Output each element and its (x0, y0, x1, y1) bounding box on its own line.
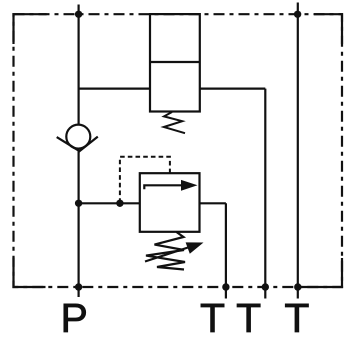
svg-text:T: T (236, 295, 261, 341)
node: P pilot tee junction (75, 200, 82, 207)
wire: P vertical line (77, 5, 79, 288)
check valve V1 (57, 125, 98, 152)
svg-text:T: T (284, 295, 309, 341)
wire: P stub below envelope (77, 287, 79, 297)
wire: branch P to upper valve (79, 87, 150, 89)
svg-text:T: T (200, 295, 225, 341)
wire: relief outlet drop to tank (first T) (225, 203, 227, 298)
node: first T junction (222, 283, 229, 290)
wire: relief valve outlet (200, 202, 226, 204)
pilot line (dashed) of U2 (120, 157, 170, 201)
node: pilot branch junction (116, 200, 123, 207)
node: P bottom junction (75, 283, 82, 290)
node: second T junction (262, 283, 269, 290)
valve body U1 (two-position cartridge element) (150, 14, 200, 111)
node: third T junction (294, 283, 301, 290)
relief valve U2 (140, 173, 200, 232)
svg-text:P: P (61, 295, 88, 341)
wire: right drop to tank (second T) (264, 89, 266, 299)
wire: right T vertical line (297, 3, 299, 299)
wire: pilot feed P to relief valve (79, 202, 140, 204)
enclosure boundary (dash-dot envelope) (14, 14, 343, 287)
node: P top junction (75, 11, 82, 18)
spring of U2 (adjustable) (145, 232, 204, 270)
spring of U1 (164, 112, 185, 133)
node: right T top junction (294, 11, 301, 18)
wire: upper valve to right drop (200, 87, 265, 89)
